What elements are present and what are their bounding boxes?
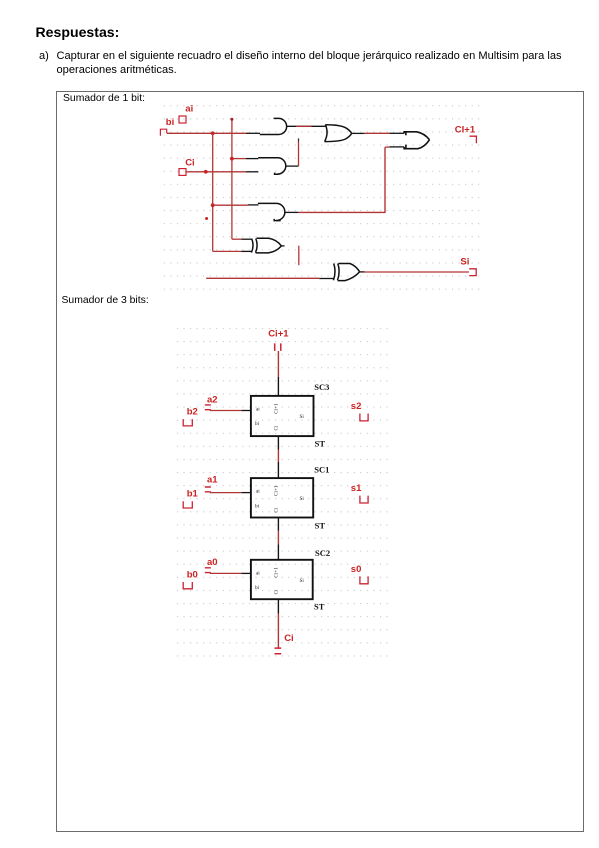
svg-text:a0: a0 [207,557,218,568]
svg-text:b2: b2 [187,407,198,418]
wire SC1 to SC2 [277,518,279,531]
svg-text:a2: a2 [207,394,218,405]
and-gate G4 [258,203,285,220]
svg-text:Si: Si [460,257,469,268]
wire B to G3 upper input [232,158,246,160]
svg-text:s0: s0 [351,564,362,575]
caption Sumador de 3 bits [62,295,149,306]
svg-text:SC2: SC2 [315,548,330,558]
wire up to G5 lower input [384,147,386,213]
svg-text:ai: ai [256,570,260,576]
grid dots circuit 2 [176,318,389,664]
wire Ci+1 to SC3 [277,351,279,377]
svg-text:ST: ST [314,602,325,612]
xor-gate G7 [333,264,335,281]
svg-text:Ci+1: Ci+1 [268,328,289,339]
connector b1 [183,501,192,508]
node junction on bi wire [211,131,215,135]
wire b1 to SC1 [210,492,242,494]
and-gate G1 [260,118,287,134]
wire b0 to SC2 [210,572,242,574]
wire G7 output to Si [360,271,365,273]
svg-text:ST: ST [315,520,326,530]
svg-text:Si: Si [300,496,305,502]
title Respuestas [36,24,120,40]
caption Sumador de 1 bit [63,93,145,104]
wire G4 output [285,211,299,213]
block SC2 [251,560,313,599]
connector Si [469,269,476,276]
connector b2 [183,419,192,426]
connector s0 [360,576,368,583]
connector bi [160,129,166,136]
connector b0 [183,582,192,589]
svg-text:b1: b1 [187,489,199,500]
svg-text:CI+1: CI+1 [455,125,476,136]
wire b2 to SC3 [210,410,242,412]
svg-text:SC3: SC3 [314,382,329,392]
svg-text:Ci+1: Ci+1 [274,567,280,578]
wire A to G4 upper input [213,204,248,206]
or-gate G2 [325,125,327,142]
node junction A for G4 [211,203,215,207]
svg-text:Ci: Ci [185,157,195,168]
wire red vertical to G2 lower [298,138,300,141]
node junction on B for G3 [230,157,234,161]
svg-text:Si: Si [300,414,305,420]
wire vertical B [231,119,233,239]
svg-text:Si: Si [300,578,305,584]
wire G2 output to G5 [352,132,365,134]
svg-text:Ci: Ci [274,425,280,430]
wire G3 output [286,165,299,167]
svg-text:a1: a1 [207,474,218,485]
svg-text:ai: ai [185,103,193,114]
wire G6 output stub [281,245,284,247]
wire B to G6 upper input [232,238,242,240]
and-gate G3 [258,158,286,174]
svg-text:Ci+1: Ci+1 [274,485,280,496]
node junction on Ci wire [204,170,208,174]
svg-text:SC1: SC1 [314,464,329,474]
svg-text:s2: s2 [351,401,362,412]
block SC1 [251,478,313,517]
svg-text:bi: bi [255,503,260,509]
svg-text:Ci+1: Ci+1 [274,403,280,414]
wire SC2 to Ci [277,599,279,613]
svg-text:Ci: Ci [284,633,294,644]
connector ai [179,116,186,123]
block SC3 [251,396,314,436]
svg-text:bi: bi [166,117,174,128]
svg-text:Ci: Ci [274,507,280,512]
svg-text:ai: ai [256,406,260,412]
connector CI+1 [470,136,477,143]
connector a1 bars [205,487,211,492]
connector s1 [360,496,368,503]
connector s2 [360,414,368,421]
svg-text:b0: b0 [187,569,198,580]
svg-text:s1: s1 [351,483,362,494]
svg-text:Ci: Ci [274,589,280,594]
connector Ci bars [275,648,282,654]
wire A to G6 lower input [213,250,242,252]
wire red vertical below G6 [298,246,300,266]
grid dots circuit 1 [163,104,481,291]
wire vertical A [212,133,214,251]
svg-text:ST: ST [315,439,326,449]
or-gate G5 [404,132,429,140]
connector a2 bars [205,405,211,410]
outer answer box [56,91,584,832]
wire Ci to G3 lower input [186,171,246,173]
wire long lower to G7 [206,277,319,279]
svg-text:bi: bi [255,585,260,591]
wire SC3 to SC1 [277,436,279,449]
node B top tip [230,118,233,121]
xor-gate G6 [251,239,253,253]
item a) text [39,50,49,62]
connector Ci+1 bars [275,343,281,351]
svg-text:bi: bi [255,421,260,427]
connector Ci [179,169,186,176]
connector a0 bars [205,568,211,573]
node stray dot [205,217,208,220]
wire G1 output [287,125,326,127]
svg-text:ai: ai [256,489,260,495]
wire bi to gate G1 [167,132,246,134]
